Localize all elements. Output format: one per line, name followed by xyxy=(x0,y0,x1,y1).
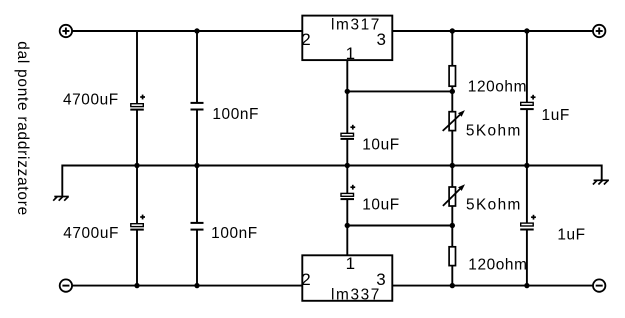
wire C4 branch upper xyxy=(196,166,198,223)
svg-text:120ohm: 120ohm xyxy=(468,79,527,96)
svg-text:lm317: lm317 xyxy=(331,16,381,33)
wire bottom rail right segment xyxy=(392,285,593,287)
svg-text:3: 3 xyxy=(376,30,385,49)
svg-text:3: 3 xyxy=(376,270,385,289)
potentiometer P2 5Kohm lower xyxy=(443,184,522,213)
wire C1 branch lower xyxy=(136,110,138,166)
resistor R1 120ohm upper xyxy=(449,66,527,96)
capacitor C5 10uF upper xyxy=(341,125,400,154)
wire right ground drop xyxy=(601,165,603,181)
wire P2 to R2 xyxy=(451,206,453,247)
wire R2 to bottom rail xyxy=(451,266,453,286)
capacitor C3 4700uF lower xyxy=(63,215,145,243)
wire adj link upper xyxy=(347,90,452,92)
wire ground rail to C8 xyxy=(526,166,528,224)
capacitor C7 1uF upper xyxy=(520,95,570,124)
wire C2 branch upper xyxy=(196,31,198,103)
wire P1 to ground rail xyxy=(451,131,453,166)
svg-text:lm337: lm337 xyxy=(331,287,381,304)
wire C1 branch upper xyxy=(136,31,138,104)
wire C5 to ground rail xyxy=(346,139,348,166)
capacitor C6 10uF lower xyxy=(341,185,400,214)
svg-text:120ohm: 120ohm xyxy=(468,257,527,274)
wire C7 to ground rail xyxy=(526,109,528,165)
svg-text:1uF: 1uF xyxy=(557,227,585,244)
wire top rail to C7 xyxy=(526,31,528,102)
wire ground rail to P2 xyxy=(451,166,453,188)
wire middle ground rail xyxy=(62,165,601,167)
capacitor C1 4700uF upper xyxy=(63,92,145,110)
wire top rail right segment xyxy=(392,30,593,32)
svg-text:100nF: 100nF xyxy=(211,225,258,242)
svg-text:100nF: 100nF xyxy=(212,106,259,123)
wire ground rail to C6 xyxy=(346,166,348,194)
ground right xyxy=(593,180,609,184)
resistor R2 120ohm lower xyxy=(449,247,527,274)
svg-text:1uF: 1uF xyxy=(542,107,570,124)
svg-text:dal ponte raddrizzatore: dal ponte raddrizzatore xyxy=(14,41,31,216)
svg-text:4700uF: 4700uF xyxy=(63,92,119,109)
wire bottom rail left segment xyxy=(72,285,302,287)
svg-text:4700uF: 4700uF xyxy=(63,225,119,242)
wire U1 pin1 to C5 xyxy=(346,60,348,133)
svg-text:10uF: 10uF xyxy=(362,137,399,154)
capacitor C4 100nF lower xyxy=(191,223,258,242)
svg-text:2: 2 xyxy=(301,30,310,49)
wire C3 branch upper xyxy=(136,166,138,224)
terminal - output xyxy=(593,279,605,291)
op-amp U2 lm337 regulator box xyxy=(302,255,392,303)
capacitor C2 100nF upper xyxy=(191,103,260,123)
wire left ground drop xyxy=(61,165,63,197)
wire C8 to bottom rail xyxy=(526,230,528,286)
wire top rail left segment xyxy=(72,30,302,32)
svg-text:10uF: 10uF xyxy=(362,197,399,214)
svg-text:1: 1 xyxy=(346,254,355,273)
potentiometer P1 5Kohm upper xyxy=(443,110,522,139)
svg-text:5Kohm: 5Kohm xyxy=(466,123,522,140)
wire top rail to R1 xyxy=(451,31,453,66)
svg-text:5Kohm: 5Kohm xyxy=(466,197,522,214)
wire C6 to U2 pin1 xyxy=(346,199,348,255)
wire C3 branch lower xyxy=(136,230,138,286)
svg-text:1: 1 xyxy=(346,44,355,63)
terminal - input xyxy=(60,279,72,291)
wire C2 branch lower xyxy=(196,110,198,166)
node junction dots xyxy=(134,28,529,288)
svg-text:2: 2 xyxy=(301,270,310,289)
op-amp U1 lm317 regulator box xyxy=(302,16,392,61)
terminal + input xyxy=(60,25,72,37)
wire R1 to P1 xyxy=(451,86,453,112)
wire C4 branch lower xyxy=(196,230,198,286)
capacitor C8 1uF lower xyxy=(520,215,585,244)
terminal + output xyxy=(593,25,605,37)
wire adj link lower xyxy=(347,225,452,227)
ground left xyxy=(53,197,69,201)
